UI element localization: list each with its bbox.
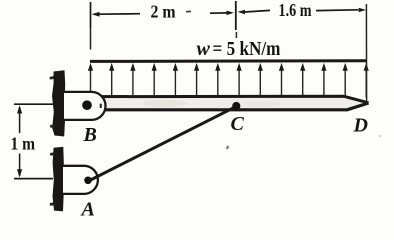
wall bar at A — [53, 147, 64, 212]
svg-text:2 m: 2 m — [151, 2, 176, 22]
dimension 1 m: vertical line — [19, 107, 21, 133]
small artifact dash — [186, 10, 191, 12]
svg-text:D: D — [353, 114, 368, 136]
dimension 1 m: bottom tick — [14, 178, 53, 180]
pin C — [232, 102, 240, 110]
extension line below left tick — [90, 28, 92, 50]
wall bar at B — [52, 70, 65, 136]
bracket A (clevis) — [63, 166, 98, 194]
svg-text:1 m: 1 m — [11, 134, 36, 154]
dimension 1 m: top tick — [14, 103, 53, 105]
svg-text:B: B — [83, 124, 97, 146]
svg-text:C: C — [231, 113, 245, 135]
dimension arrow left (1.6 m) — [238, 10, 246, 14]
dimension 1 m: down arrowhead — [17, 169, 22, 177]
beam BD — [96, 95, 369, 111]
extension dash below middle tick — [235, 32, 237, 38]
hatch stub B — [50, 76, 55, 80]
dimension 1 m: up arrowhead — [17, 105, 22, 113]
dimension line: left tick at B — [90, 2, 92, 28]
clevis gap mark at B — [100, 104, 102, 108]
scan speckles — [226, 145, 230, 150]
distributed load arrows — [88, 63, 369, 97]
svg-text:1.6 m: 1.6 m — [279, 0, 312, 20]
extension line right at D — [365, 4, 367, 103]
svg-text:= 5 kN/m: = 5 kN/m — [213, 38, 281, 60]
svg-text:w: w — [197, 38, 211, 60]
distributed load top line — [90, 59, 367, 63]
svg-text:A: A — [80, 198, 95, 220]
pin A — [84, 177, 92, 185]
dimension arrow right (2 m) — [210, 12, 229, 14]
link AC — [90, 106, 237, 180]
dimension tick middle at C — [235, 1, 237, 30]
hatch stub A — [50, 152, 54, 155]
dimension arrow right (1.6 m) — [316, 9, 358, 12]
pin B — [82, 100, 92, 110]
bracket B (clevis) — [64, 92, 106, 120]
dimension arrow left (2 m) — [92, 12, 100, 17]
